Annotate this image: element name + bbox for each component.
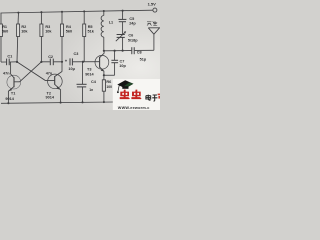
resistor R1 bbox=[0, 13, 8, 62]
svg-text:C7: C7 bbox=[120, 59, 125, 63]
svg-text:560: 560 bbox=[2, 30, 8, 34]
svg-text:C1: C1 bbox=[7, 54, 12, 58]
wire collector node horizontal bbox=[103, 50, 132, 52]
label antenna (tian xian) bbox=[147, 21, 157, 26]
svg-text:T1: T1 bbox=[11, 92, 15, 96]
watermark small red mark right bbox=[158, 94, 160, 99]
svg-text:9014: 9014 bbox=[85, 72, 94, 76]
capacitor C4 bbox=[77, 62, 97, 104]
svg-text:C6: C6 bbox=[128, 34, 133, 38]
svg-text:R3: R3 bbox=[45, 25, 50, 29]
svg-text:51p: 51p bbox=[140, 58, 147, 62]
svg-text:9014: 9014 bbox=[46, 96, 55, 100]
svg-text:47n: 47n bbox=[3, 71, 10, 75]
capacitor C2 bbox=[40, 55, 63, 76]
svg-text:5/18p: 5/18p bbox=[128, 39, 138, 43]
svg-text:1.5V: 1.5V bbox=[148, 2, 157, 7]
capacitor C7 feedback bbox=[104, 50, 127, 76]
svg-text:51k: 51k bbox=[88, 30, 95, 34]
inductor L1 bbox=[101, 10, 113, 51]
svg-text:9014: 9014 bbox=[5, 97, 14, 101]
svg-text:1n: 1n bbox=[89, 88, 93, 92]
svg-text:C2: C2 bbox=[48, 55, 53, 59]
resistor R5 bbox=[83, 10, 95, 61]
watermark text dian zi (dark) bbox=[146, 95, 158, 101]
wire bottom ground rail bbox=[1, 102, 114, 103]
svg-text:R1: R1 bbox=[2, 25, 7, 29]
transistor T1 9014 bbox=[5, 62, 20, 103]
svg-text:WWW.eeworm.c: WWW.eeworm.c bbox=[118, 106, 150, 110]
svg-text:100: 100 bbox=[106, 85, 112, 89]
capacitor C8 bbox=[132, 47, 154, 61]
svg-text:R5: R5 bbox=[88, 25, 93, 29]
transistor T3 9014 bbox=[85, 51, 109, 77]
svg-text:C8: C8 bbox=[137, 50, 142, 54]
resistor R2 bbox=[17, 12, 29, 62]
svg-text:10k: 10k bbox=[21, 30, 28, 34]
antenna bbox=[148, 28, 159, 50]
node T3 emitter junction bbox=[103, 74, 105, 76]
watermark graduation cap logo bbox=[117, 80, 133, 93]
resistor R4 bbox=[61, 11, 73, 72]
node T3 base / R5 / C4 junction bbox=[82, 61, 84, 63]
svg-text:24p: 24p bbox=[129, 21, 136, 25]
svg-text:560: 560 bbox=[66, 30, 72, 34]
watermark url text (red) bbox=[118, 106, 150, 110]
wire cross-coupling diagonal A to T2 base bbox=[17, 62, 55, 81]
watermark white panel bbox=[113, 79, 160, 110]
wire cross-coupling diagonal B to T1 base bbox=[14, 62, 41, 82]
battery terminal +1.5V bbox=[148, 2, 157, 12]
transistor T2 9014 bbox=[46, 72, 63, 103]
watermark text chong chong (red) bbox=[120, 90, 142, 100]
svg-text:C3: C3 bbox=[74, 52, 79, 56]
svg-text:R6: R6 bbox=[106, 80, 111, 84]
svg-text:10k: 10k bbox=[45, 30, 52, 34]
wire top supply rail bbox=[1, 10, 153, 13]
node bottom rail junctions bbox=[7, 102, 61, 105]
capacitor C5 bbox=[118, 10, 136, 35]
resistor R3 bbox=[40, 11, 53, 62]
capacitor C1 bbox=[1, 54, 18, 75]
svg-text:10p: 10p bbox=[119, 64, 126, 68]
svg-text:10μ: 10μ bbox=[68, 67, 75, 71]
resistor R6 bbox=[102, 75, 112, 103]
svg-text:T3: T3 bbox=[87, 68, 91, 72]
capacitor C3 (electrolytic 10u) bbox=[65, 52, 100, 71]
svg-text:L1: L1 bbox=[109, 21, 113, 25]
capacitor C6 variable bbox=[116, 31, 138, 52]
svg-text:R2: R2 bbox=[21, 25, 26, 29]
